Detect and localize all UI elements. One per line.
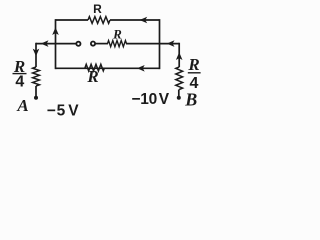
fraction bar R/4 (right): [188, 72, 201, 74]
current arrow on middle wire left (pointing left): [41, 40, 49, 47]
switch contact (left open circle): [76, 42, 80, 46]
wire top-right horizontal segment: [110, 19, 160, 21]
svg-text:−5: −5: [47, 102, 66, 119]
wire middle segment (contact to resistor): [95, 43, 108, 45]
current arrow on top wire (pointing left): [140, 17, 148, 24]
current arrow on bottom rail (pointing left): [137, 65, 145, 72]
svg-text:V: V: [68, 102, 79, 119]
wire right vertical (top to bottom rail): [159, 19, 161, 69]
svg-text:B: B: [184, 89, 197, 109]
resistor R/4 (left): [33, 67, 40, 86]
resistor R (top): [88, 17, 110, 24]
svg-text:4: 4: [15, 74, 24, 91]
svg-text:R: R: [93, 2, 102, 16]
resistor R (bottom): [85, 64, 105, 71]
svg-text:A: A: [16, 96, 28, 115]
current arrow on middle wire right (pointing left): [167, 40, 175, 47]
fraction bar R/4 (left): [13, 73, 27, 75]
wire middle-left segment (node to switch contact): [36, 43, 76, 45]
wire left branch lower stub: [35, 86, 37, 97]
node A terminal dot: [34, 96, 38, 100]
wire bottom rail: [56, 67, 160, 69]
current arrow on left vertical (pointing up): [52, 27, 59, 35]
svg-text:−10: −10: [132, 91, 157, 108]
wire left branch vertical (to node A): [35, 43, 37, 67]
svg-text:R: R: [86, 67, 98, 86]
wire left vertical (top to bottom rail): [55, 19, 57, 69]
node B terminal dot: [177, 96, 181, 100]
svg-text:V: V: [159, 91, 170, 108]
resistor R (middle): [108, 41, 127, 47]
resistor R/4 (right): [176, 67, 183, 90]
wire right branch lower stub: [178, 90, 180, 98]
svg-text:R: R: [112, 27, 122, 42]
wire middle-right segment: [126, 43, 179, 45]
svg-text:R: R: [187, 55, 199, 74]
current arrow on right branch (pointing up): [176, 52, 183, 60]
wire right branch vertical (to node B): [178, 43, 180, 67]
wire top-left horizontal segment: [56, 19, 89, 21]
switch contact (right open circle): [91, 42, 95, 46]
current arrow on left branch (pointing down): [33, 49, 40, 57]
